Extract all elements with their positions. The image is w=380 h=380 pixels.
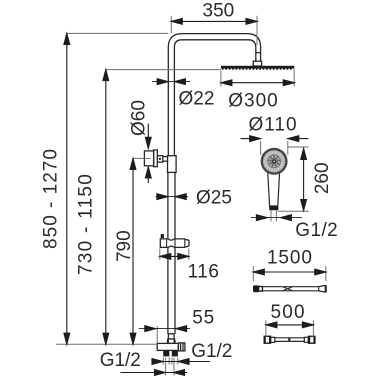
ext lines 500 — [265, 320, 267, 337]
ext line Ø300 right — [293, 69, 295, 87]
diverter valve on pipe — [144, 150, 176, 173]
svg-text:G1/2: G1/2 — [295, 220, 338, 241]
dim bottom stubs row2 — [121, 372, 188, 374]
svg-text:730 - 1150: 730 - 1150 — [75, 173, 96, 275]
svg-text:Ø22: Ø22 — [179, 88, 215, 109]
ext lines bottom stubs — [162, 358, 164, 365]
dim 850-1270 — [66, 33, 68, 344]
wire: lower pipe right edge — [174, 158, 176, 334]
svg-text:G1/2: G1/2 — [191, 341, 232, 362]
wall bar 500 — [264, 336, 315, 343]
dim Ø60 — [147, 124, 149, 149]
ext line 55 valve left edge — [156, 326, 158, 343]
ext line arm top to 850-1270 — [67, 32, 169, 34]
dim Ø300 — [221, 82, 294, 84]
svg-text:Ø60: Ø60 — [129, 100, 150, 136]
dim 730-1150 — [105, 70, 107, 345]
svg-text:350: 350 — [203, 1, 235, 22]
dim 500 — [266, 324, 314, 326]
wire: lower pipe left edge — [167, 158, 169, 334]
ext line head connector top — [256, 16, 258, 45]
ext line pipe center top — [170, 16, 172, 33]
svg-text:116: 116 — [188, 262, 220, 283]
ext line 260 top — [288, 146, 309, 148]
ext line head bottom to 730-1150 — [106, 69, 221, 71]
wire: shower column pipe inner profile — [174, 40, 255, 160]
wall baseline — [56, 343, 157, 345]
dim 55 — [139, 328, 190, 330]
bottom supply valve assembly — [157, 334, 185, 351]
svg-text:G1/2: G1/2 — [100, 350, 141, 371]
dim G1/2 hand shower — [251, 217, 302, 219]
ext line Ø300 left — [220, 71, 222, 87]
shower hose 1500 — [253, 285, 327, 292]
dim Ø22 — [152, 81, 190, 83]
dim Ø25 — [156, 196, 189, 198]
wire: shower column pipe outer profile — [168, 34, 260, 160]
ext lines 116 bracket — [159, 249, 161, 260]
dim 790 — [132, 158, 134, 344]
svg-text:850 - 1270: 850 - 1270 — [41, 148, 62, 249]
svg-text:Ø110: Ø110 — [248, 115, 297, 136]
dim bottom stubs row1 — [152, 361, 210, 363]
svg-text:260: 260 — [312, 162, 333, 194]
svg-text:55: 55 — [192, 308, 215, 329]
ext lines Ø110 — [260, 141, 262, 155]
rain head flange — [253, 61, 261, 66]
svg-text:790: 790 — [114, 230, 135, 262]
joint on down pipe — [256, 52, 261, 54]
hand shower — [261, 148, 288, 211]
dim 260 — [303, 149, 305, 211]
ext line 260 bottom / G1/2 — [278, 210, 309, 212]
dim 116 — [160, 255, 189, 257]
svg-text:500: 500 — [270, 302, 305, 323]
svg-text:Ø25: Ø25 — [196, 188, 232, 209]
ext line valve centre to 790 — [133, 157, 151, 159]
hand shower holder bracket — [160, 234, 189, 247]
svg-text:Ø300: Ø300 — [228, 90, 278, 111]
rain shower head Ø300 — [221, 66, 294, 69]
dim 350 — [171, 20, 257, 22]
dim 1500 — [253, 271, 325, 273]
svg-text:1500: 1500 — [267, 248, 313, 269]
dim Ø110 — [241, 138, 261, 140]
ext lines 1500 — [252, 266, 254, 281]
